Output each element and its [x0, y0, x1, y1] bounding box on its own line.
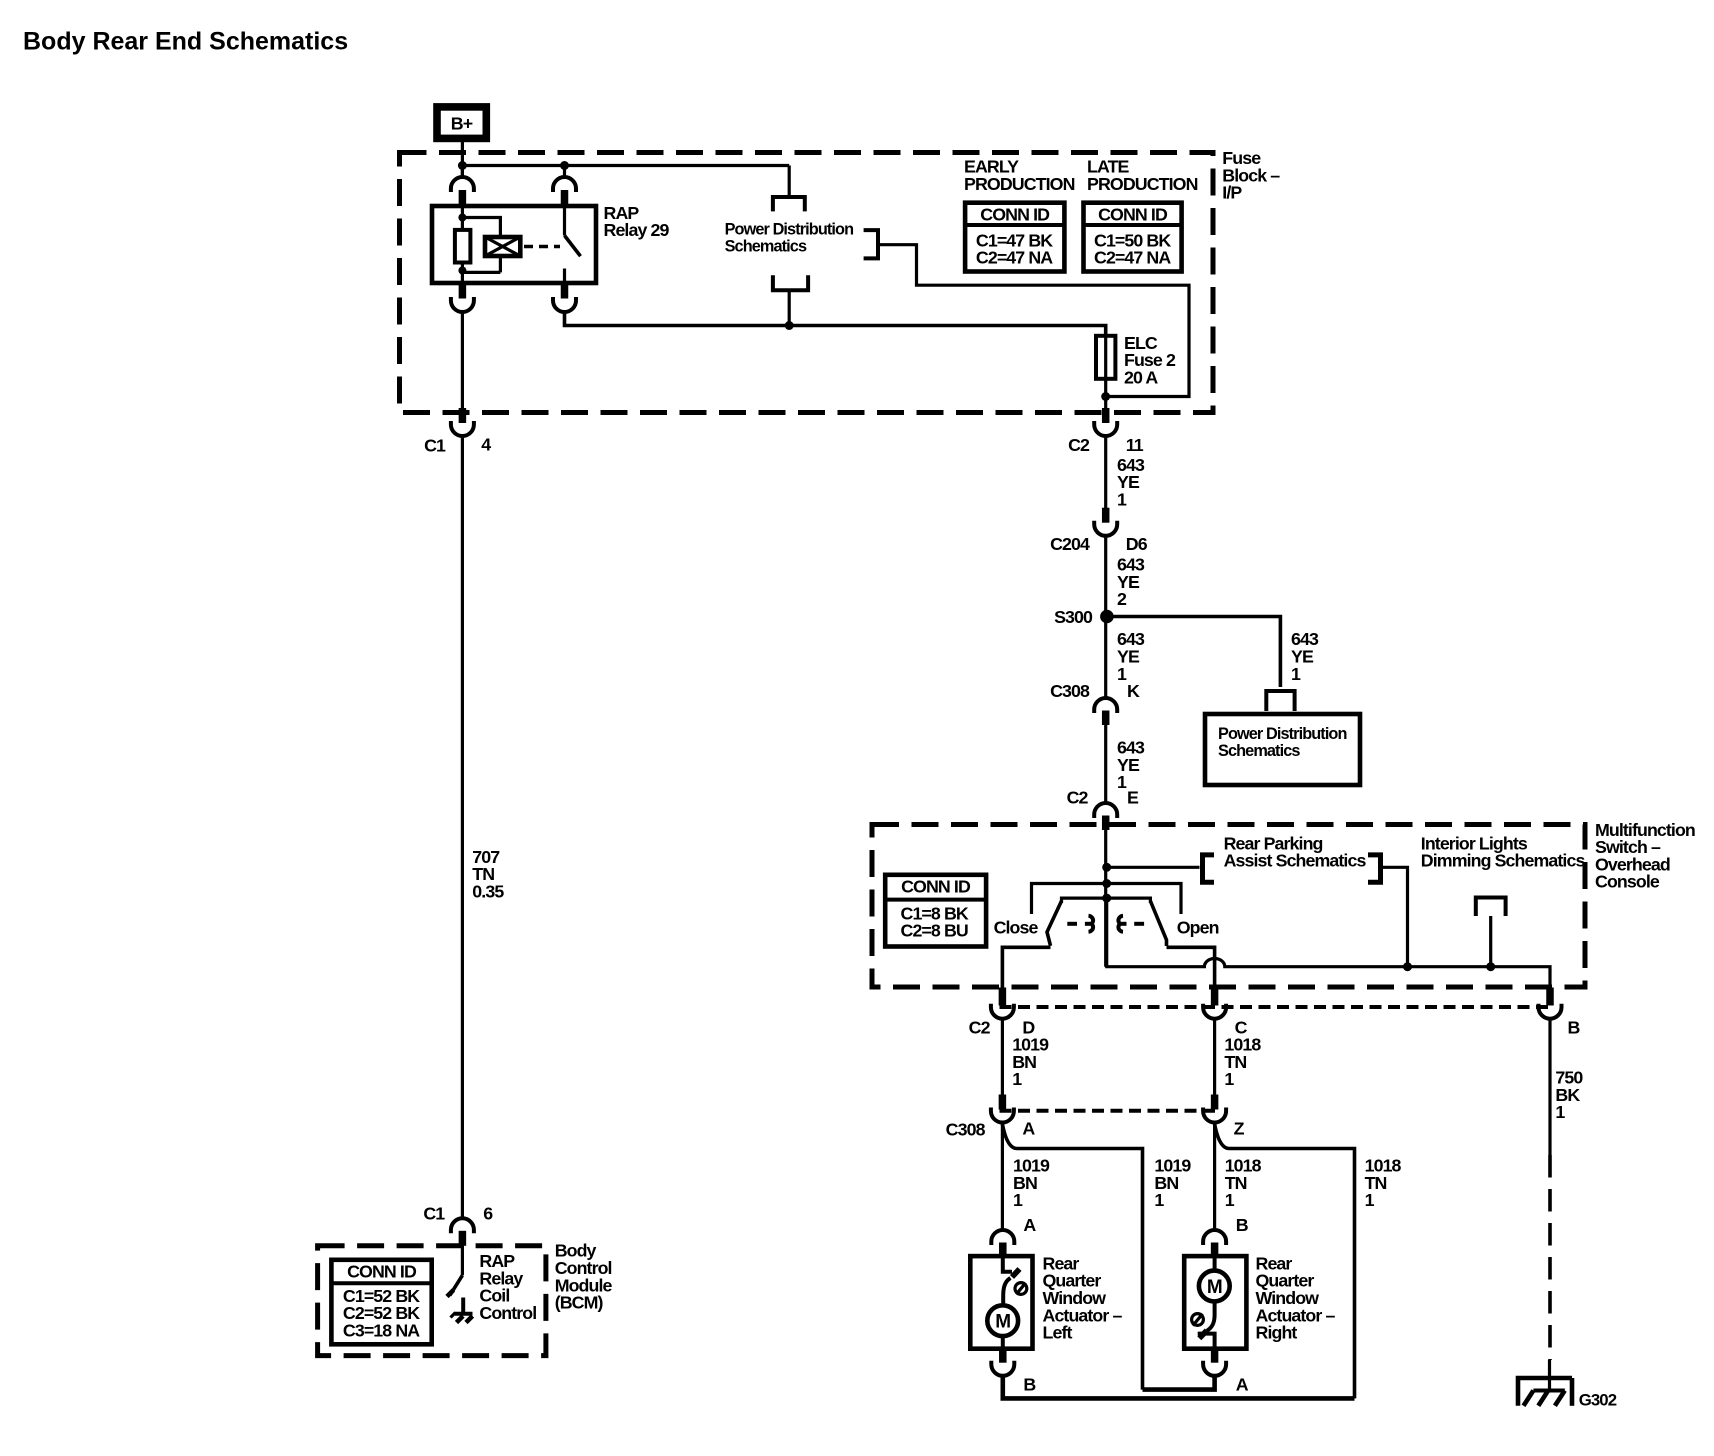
connector C308 pin Z	[1203, 1095, 1226, 1123]
svg-text:CONN ID: CONN ID	[901, 877, 971, 897]
connector label C308 K	[1050, 681, 1140, 701]
BCM dashed outline	[318, 1246, 546, 1356]
splice S300	[1100, 610, 1114, 624]
connector: RAP relay pin (switch feed)	[553, 166, 576, 207]
svg-text:C1: C1	[424, 435, 446, 455]
svg-text:20 A: 20 A	[1124, 367, 1158, 387]
svg-text:C308: C308	[946, 1120, 986, 1140]
labels C308 A Z	[946, 1119, 1245, 1140]
svg-text:CONN ID: CONN ID	[980, 204, 1050, 224]
wire: branch to coil top	[462, 218, 500, 238]
wire label 643 YE 2	[1117, 555, 1145, 610]
connector: right actuator pin A	[1203, 1349, 1226, 1376]
svg-text:C2: C2	[1067, 788, 1089, 808]
svg-text:1: 1	[1012, 1069, 1022, 1089]
node: dimming pointer joins	[1486, 962, 1495, 971]
wire label 750 BK 1	[1555, 1068, 1583, 1123]
wire 643 YE 1 segment	[1104, 436, 1107, 508]
reference box: Power Distribution Schematics	[1205, 714, 1360, 785]
connector label C204 D6	[1050, 534, 1148, 554]
switch rocker linkage (dashed with hooks)	[1067, 916, 1144, 932]
wire label 643 YE 1 (branch)	[1291, 629, 1319, 684]
svg-text:B: B	[1236, 1215, 1249, 1235]
wire label 643 YE 1 (lower)	[1117, 738, 1145, 793]
svg-text:1: 1	[1555, 1102, 1565, 1122]
wire: coil bottom branch	[462, 256, 500, 272]
svg-text:1: 1	[1154, 1190, 1164, 1210]
actuator left label	[1043, 1253, 1123, 1342]
connector C2 pin B	[1539, 988, 1562, 1019]
off-page bracket to fuse	[864, 230, 878, 258]
connector C2 pin E	[1094, 803, 1117, 830]
fuse block I/P dashed outline	[400, 153, 1214, 413]
BCM label	[555, 1241, 613, 1313]
motor assembly: Rear Quarter Window Actuator Left	[970, 1256, 1032, 1349]
wire 1018 TN 1 (C to Z)	[1213, 1019, 1216, 1096]
actuator right label	[1256, 1253, 1336, 1342]
wire: ground stem	[1548, 1360, 1551, 1392]
wire: coil entry	[461, 206, 464, 218]
off-page pointer below schematics label	[773, 275, 808, 290]
wire: A branch to right actuator return	[1002, 1124, 1142, 1390]
svg-text:PRODUCTION: PRODUCTION	[1087, 174, 1198, 194]
resistor: relay coil suppression resistor	[461, 218, 464, 231]
svg-text:0.35: 0.35	[472, 882, 504, 902]
wire: coil junction to relay pin	[461, 271, 464, 284]
node: dim bus joins	[1403, 962, 1412, 971]
svg-text:C2: C2	[969, 1018, 991, 1038]
BCM function label	[479, 1251, 536, 1323]
svg-text:C2=47 NA: C2=47 NA	[976, 248, 1053, 268]
wire: close output to connector D	[1002, 947, 1050, 991]
connector table CONN ID (late)	[1084, 203, 1182, 272]
connector C308 pin A	[991, 1095, 1014, 1123]
connector: left actuator pin A	[991, 1230, 1014, 1257]
multifunction switch label	[1595, 820, 1695, 892]
svg-text:I/P: I/P	[1222, 183, 1242, 203]
wire label 1018 TN 1 (branch)	[1365, 1156, 1402, 1211]
bracket ] rear parking	[1368, 855, 1381, 882]
label interior lights dimming	[1421, 833, 1586, 870]
connector: right actuator pin B	[1203, 1230, 1226, 1257]
svg-text:K: K	[1127, 681, 1140, 701]
svg-text:Z: Z	[1234, 1119, 1245, 1139]
svg-text:B: B	[1568, 1018, 1581, 1038]
node: relay switch feed junction	[560, 161, 569, 170]
label power distribution schematics	[725, 220, 854, 255]
svg-text:C308: C308	[1050, 681, 1090, 701]
wire label 1018 TN 1 (left)	[1225, 1156, 1262, 1211]
svg-text:CONN ID: CONN ID	[347, 1261, 417, 1281]
wire: fuse output to connector	[1104, 397, 1107, 410]
svg-text:PRODUCTION: PRODUCTION	[964, 174, 1075, 194]
connector table CONN ID (BCM)	[331, 1260, 431, 1345]
wire: switch feed entry	[563, 206, 566, 236]
svg-text:Open: Open	[1177, 918, 1219, 938]
BCM internal ground	[447, 1290, 473, 1323]
connector C308 pin K	[1094, 698, 1117, 725]
wire label 643 YE 1	[1117, 455, 1145, 510]
multifunction switch dashed outline	[872, 825, 1585, 988]
svg-text:1: 1	[1291, 664, 1301, 684]
svg-text:(BCM): (BCM)	[555, 1293, 604, 1313]
svg-text:Relay 29: Relay 29	[604, 220, 670, 240]
wire: feed bus to power distribution tap	[462, 164, 789, 167]
svg-text:Schematics: Schematics	[1218, 742, 1300, 760]
svg-text:2: 2	[1117, 589, 1127, 609]
connector C2 pin 11	[1094, 408, 1117, 436]
battery feed B+ terminal	[437, 107, 486, 138]
wire: open output to connector C	[1167, 947, 1215, 991]
connector face C2 (overhead console, dotted)	[1000, 1005, 1553, 1009]
wire: relay switch output bus to fuse top	[565, 313, 1106, 336]
node: close/open feed upper	[1102, 879, 1111, 888]
connector label C1 4	[424, 434, 491, 455]
node: blade feed	[1102, 894, 1111, 903]
wire: rear parking to dim bus	[1381, 867, 1408, 966]
svg-text:M: M	[1207, 1277, 1222, 1298]
svg-text:1: 1	[1225, 1190, 1235, 1210]
svg-text:Assist Schematics: Assist Schematics	[1224, 851, 1367, 871]
node: fuse output junction	[1101, 392, 1110, 401]
wire: feed bus to off-page pointer	[788, 166, 791, 196]
motor assembly: Rear Quarter Window Actuator Right	[1184, 1256, 1246, 1349]
svg-text:Dimming Schematics: Dimming Schematics	[1421, 851, 1586, 871]
wire: tap to rear parking bracket	[1107, 866, 1200, 869]
relay RAP Relay 29 box	[432, 206, 596, 283]
svg-text:C204: C204	[1050, 534, 1090, 554]
connector: left actuator pin B	[991, 1349, 1014, 1376]
svg-text:Power Distribution: Power Distribution	[725, 220, 854, 238]
linkage: coil to contact (dashed)	[524, 245, 560, 249]
svg-text:A: A	[1022, 1119, 1035, 1139]
wire: C2-E into switch	[1104, 830, 1107, 967]
label early production	[964, 157, 1075, 194]
node: relay output bus junction	[785, 321, 794, 330]
label rear parking assist schematics	[1224, 833, 1367, 870]
svg-text:1: 1	[1013, 1190, 1023, 1210]
wire: relay coil output to C1 connector	[461, 313, 464, 410]
off-page pointer (from power distribution)	[773, 197, 805, 211]
svg-text:1: 1	[1117, 489, 1127, 509]
off-page pointer to power distribution box	[1266, 691, 1294, 711]
wire: A down to left actuator	[1001, 1123, 1004, 1231]
connector table CONN ID (overhead console)	[885, 875, 986, 947]
svg-text:1: 1	[1117, 772, 1127, 792]
node: B+ bus junction	[458, 161, 467, 170]
svg-text:S300: S300	[1054, 607, 1093, 627]
coil: relay winding (crossed box)	[485, 237, 520, 256]
wire: relay switch output	[563, 269, 566, 284]
svg-text:E: E	[1127, 788, 1139, 808]
svg-text:A: A	[1023, 1215, 1036, 1235]
wire: right actuator A return	[1143, 1376, 1215, 1390]
connector C1 pin 6	[451, 1218, 474, 1245]
svg-text:Body Rear End Schematics: Body Rear End Schematics	[23, 28, 348, 56]
svg-text:C2=8 BU: C2=8 BU	[901, 921, 968, 941]
svg-text:Close: Close	[994, 918, 1039, 938]
connector C204 pin D6	[1094, 508, 1117, 536]
wire through fuse	[1104, 326, 1107, 397]
svg-text:1: 1	[1117, 664, 1127, 684]
node: coil bottom junction	[458, 267, 466, 275]
svg-text:CONN ID: CONN ID	[1098, 204, 1168, 224]
connector label C2 E	[1067, 788, 1139, 808]
svg-text:1: 1	[1224, 1069, 1234, 1089]
svg-text:C3=18 NA: C3=18 NA	[343, 1321, 420, 1341]
connector: relay switch output pin	[553, 284, 576, 313]
svg-text:Console: Console	[1595, 872, 1660, 892]
connector label C2 11	[1068, 435, 1144, 455]
wire: Z branch to left actuator return	[1215, 1124, 1355, 1398]
wire label 1018 TN 1	[1224, 1035, 1261, 1090]
wire 750 BK 1 solid part	[1548, 1019, 1551, 1155]
wire label 1019 BN 1 (branch)	[1154, 1156, 1191, 1211]
svg-text:M: M	[995, 1312, 1010, 1333]
connector C2 pin C	[1203, 988, 1226, 1019]
bracket [ rear parking	[1203, 855, 1215, 882]
switch blade: close side	[1047, 901, 1062, 946]
wire: throw terminals bar	[1032, 884, 1182, 915]
wire 1019 BN 1 (D to A)	[1001, 1019, 1004, 1096]
svg-text:Power Distribution: Power Distribution	[1218, 725, 1347, 743]
wire: S300 branch to power distribution	[1107, 617, 1281, 688]
labels C2 D C B	[969, 1018, 1581, 1038]
svg-text:A: A	[1236, 1375, 1249, 1395]
node: coil top junction	[458, 214, 466, 222]
wire 707 TN 0.35: C1-4 to BCM	[461, 436, 464, 1219]
wire: power distribution to ELC fuse	[878, 245, 1189, 397]
connector: relay coil output pin	[451, 284, 474, 313]
fuse label	[1124, 333, 1176, 388]
relay label	[604, 203, 670, 240]
svg-text:Schematics: Schematics	[725, 238, 807, 256]
wire: switch bus with hop over open output	[1107, 898, 1550, 991]
switch blade: open side	[1150, 901, 1166, 946]
wire label 1019 BN 1 (left)	[1013, 1156, 1050, 1211]
connector table CONN ID (early)	[965, 203, 1064, 272]
svg-text:Left: Left	[1043, 1323, 1073, 1343]
wire label 707 TN 0.35	[472, 847, 504, 902]
wire: blade pivot bar	[1062, 898, 1151, 903]
connector: RAP relay pin (coil feed)	[451, 166, 474, 207]
ground G302 symbol	[1518, 1378, 1572, 1406]
wire 643 YE 1 segment to C2	[1104, 725, 1107, 803]
wire: left actuator B return	[1003, 1376, 1355, 1399]
svg-text:Control: Control	[479, 1303, 536, 1323]
connector C2 pin D	[991, 988, 1014, 1019]
contact: relay switch blade	[565, 236, 581, 257]
off-page pointer interior lights dimming	[1474, 896, 1508, 917]
wire: pointer down to relay output bus	[788, 292, 791, 326]
wire 643 YE 2 segment	[1104, 536, 1107, 617]
wire: B+ to relay feed bus	[461, 142, 464, 179]
svg-text:6: 6	[483, 1204, 493, 1224]
wire: resistor to lower junction	[461, 263, 464, 271]
svg-text:B+: B+	[451, 113, 473, 133]
svg-text:11: 11	[1126, 435, 1144, 455]
svg-text:4: 4	[481, 434, 491, 454]
label late production	[1087, 157, 1198, 194]
svg-text:Right: Right	[1256, 1323, 1298, 1343]
wire 750 BK dashed to ground	[1548, 1155, 1552, 1360]
svg-text:B: B	[1023, 1375, 1036, 1395]
connector face C308 (dotted)	[1000, 1109, 1219, 1113]
wire: dimming pointer down	[1489, 916, 1492, 967]
wire: Z down to right actuator	[1213, 1123, 1216, 1231]
connector label C1 6	[423, 1204, 493, 1224]
BCM driver switch blade	[450, 1275, 463, 1295]
svg-text:1: 1	[1365, 1190, 1375, 1210]
wire: S300 to C308	[1104, 617, 1107, 700]
fuse block label	[1222, 148, 1280, 203]
wire label 643 YE 1 (below S300)	[1117, 629, 1145, 684]
fuse ELC Fuse 2 20A	[1096, 336, 1115, 379]
connector C1 pin 4	[451, 408, 474, 436]
wire label 1019 BN 1	[1012, 1035, 1049, 1090]
svg-text:C2=47 NA: C2=47 NA	[1094, 248, 1171, 268]
svg-text:C1: C1	[423, 1204, 445, 1224]
wire: pin 6 into BCM	[461, 1246, 464, 1276]
svg-text:D6: D6	[1126, 534, 1148, 554]
node: rear parking tap	[1102, 863, 1111, 872]
svg-text:G302: G302	[1579, 1390, 1617, 1409]
svg-text:C2: C2	[1068, 435, 1090, 455]
